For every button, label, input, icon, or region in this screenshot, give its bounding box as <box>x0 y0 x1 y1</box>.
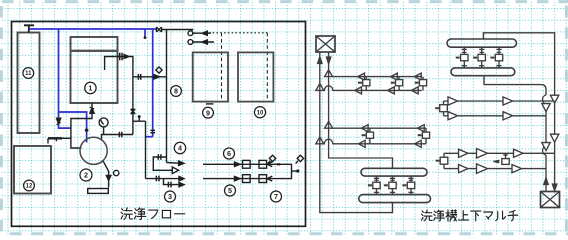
label wash-flow (洗浄フロー) <box>121 208 185 220</box>
spray valve C3 <box>490 47 502 68</box>
union bars on pump inlet <box>119 132 121 138</box>
run line R4 <box>444 168 546 170</box>
run line R1 <box>444 100 555 102</box>
tank T10 <box>238 52 273 101</box>
label circled 1 <box>85 82 96 93</box>
open nozzle triangle <box>172 167 178 174</box>
label circled 12 <box>24 180 35 191</box>
label circled 9 <box>203 107 214 118</box>
label circled 3 <box>165 191 176 202</box>
run line R3 <box>444 152 555 154</box>
wire blue drop to tank T12 side <box>59 29 71 128</box>
svg-text:7: 7 <box>274 192 278 201</box>
valve block R12 <box>435 101 447 116</box>
diamond tag B <box>296 155 304 163</box>
header pipe upper-right bottom <box>451 68 515 76</box>
down arrow on right leg <box>326 57 330 64</box>
pipe from tank T1 side outlet <box>105 57 133 135</box>
arrow node3 lower <box>179 182 184 186</box>
valve V1 on drop line <box>131 109 136 113</box>
port line upper with arrow <box>193 32 211 34</box>
vent cap on tank T11 <box>24 25 34 32</box>
svg-text:3: 3 <box>168 192 172 201</box>
arrow on line node5 <box>235 176 241 180</box>
run line R2 <box>444 115 547 117</box>
hop arc over line3 <box>543 146 546 155</box>
svg-text:9: 9 <box>206 108 210 117</box>
pump P1 <box>80 137 107 164</box>
stand mark under tank T9 <box>206 103 214 105</box>
svg-text:6: 6 <box>227 149 231 158</box>
branch node4 out <box>167 162 179 165</box>
junction triangle A top <box>325 70 333 77</box>
sampling port circles <box>188 31 193 36</box>
small gauge at discharge <box>114 170 119 175</box>
filter box A node6 <box>243 160 251 168</box>
spray header A top <box>333 76 422 78</box>
wire blue stub with dot <box>144 29 146 37</box>
label circled 10 <box>254 107 265 118</box>
label circled 2 <box>80 169 92 181</box>
flow triangles R3 <box>459 149 524 159</box>
branch mid with union <box>153 157 172 170</box>
up arrow into crossed box <box>544 178 548 185</box>
strainer S1 on header <box>156 27 161 32</box>
drop line to node3 <box>145 121 147 178</box>
header pipe bottom upper <box>361 168 427 176</box>
dotted travel line <box>205 32 267 34</box>
union ticks at tank T1 wall <box>120 53 122 60</box>
node3 branch upper <box>146 178 179 180</box>
riser line node8 <box>166 30 168 163</box>
label circled 7 <box>271 191 282 202</box>
spray header A bottom with hop <box>324 86 422 91</box>
pump discharge line <box>103 161 108 187</box>
wire supply leg right <box>329 52 393 168</box>
label circled 5 <box>225 185 236 196</box>
tank T1 <box>71 37 118 103</box>
frame wash-flow panel <box>12 22 306 227</box>
svg-text:11: 11 <box>25 71 32 77</box>
sensor lollipop on branch <box>138 118 140 121</box>
crossed box return unit bottom <box>541 192 560 208</box>
suction fitting bar <box>48 137 62 139</box>
branch to node3 drop <box>133 120 146 122</box>
header pipe bottom lower <box>359 195 431 203</box>
pump inlet line <box>102 135 134 141</box>
label circled 8 <box>171 86 182 97</box>
tick node6 <box>277 163 280 165</box>
valve arrow on drain <box>90 107 95 114</box>
dashed guide right <box>266 33 268 101</box>
svg-text:8: 8 <box>174 87 178 96</box>
spray valve D3 <box>402 176 414 195</box>
arrow on spare port <box>154 75 160 79</box>
label circled 4 <box>174 142 185 153</box>
flow triangle down <box>542 104 550 112</box>
tank T1 drain pipe <box>71 103 92 149</box>
liquid level line in tank T1 <box>71 50 118 52</box>
flow triangle down <box>542 143 550 151</box>
port line lower with arrow <box>193 41 214 43</box>
spray valve D2 <box>384 176 396 195</box>
fitting outlet line <box>62 137 71 139</box>
svg-text:2: 2 <box>84 171 88 180</box>
mid valve box R34 <box>493 153 509 164</box>
check arrow node6 <box>267 162 272 167</box>
nozzle pair A1 <box>355 73 370 94</box>
svg-text:5: 5 <box>228 186 232 195</box>
up arrow on left leg <box>318 57 322 64</box>
arrow on line node6 <box>235 162 241 166</box>
nozzle pair A3 <box>411 73 426 94</box>
label washer-up-down-multi (洗浄機上下マルチ) <box>422 210 518 221</box>
junction bead on blue pump drop <box>84 128 88 133</box>
header pipe upper-right top <box>447 39 517 47</box>
nozzle pair B1 <box>358 125 373 148</box>
svg-text:12: 12 <box>26 184 33 190</box>
page border dash top <box>2 0 568 3</box>
filter box B node6 <box>259 160 267 168</box>
filter box B node5 <box>259 175 267 183</box>
flow triangle down <box>550 134 558 142</box>
tank T9 <box>193 52 228 101</box>
nozzle pair A2 <box>388 73 403 94</box>
svg-text:10: 10 <box>257 110 264 116</box>
tank T11 <box>18 33 40 134</box>
union bars node3 upper <box>156 176 159 182</box>
spray valve C2 <box>473 47 485 68</box>
diamond tag A <box>268 155 276 163</box>
spray header B top <box>333 127 426 129</box>
dot on blue stub <box>144 36 147 39</box>
wire blue elbow to node3 line <box>146 136 153 138</box>
diamond tag node4 <box>156 67 162 73</box>
pressure gauge <box>99 118 108 127</box>
crossed box feed unit top <box>316 36 335 52</box>
header continuation to tanks <box>162 30 193 31</box>
node3 branch lower <box>164 179 179 185</box>
filter box A node5 <box>243 175 251 183</box>
wire supply leg left <box>320 52 393 213</box>
svg-text:1: 1 <box>88 84 92 93</box>
flow triangles R4 <box>459 164 522 174</box>
valve arrow on blue drop <box>56 118 61 125</box>
wire connector to frame <box>483 33 554 190</box>
drain stub with cap <box>292 170 298 172</box>
page border dash bottom <box>10 232 568 235</box>
wire blue drop to strainer <box>152 29 154 137</box>
spray valve D1 <box>368 176 380 195</box>
fitting hook <box>47 138 49 143</box>
union bars on strainer drop <box>150 130 155 132</box>
wire blue supply header <box>29 28 156 30</box>
arrow node3 upper <box>179 176 184 180</box>
junction triangle B top <box>325 121 333 128</box>
svg-text:4: 4 <box>178 144 182 153</box>
flow triangle down <box>550 95 558 103</box>
flow triangles R1 <box>448 97 513 105</box>
check arrow node5 <box>267 176 272 181</box>
valve block R34 <box>436 153 448 168</box>
junction triangle B bottom <box>316 137 324 144</box>
tank T12 <box>14 146 51 194</box>
page border dash left <box>0 6 3 236</box>
page border dash right <box>565 6 568 236</box>
fitting tick <box>55 139 57 142</box>
union bars node3 lower <box>168 182 171 188</box>
arrow on discharge <box>106 175 111 180</box>
union bars on spare port <box>138 74 140 80</box>
spray valve C1 <box>456 47 468 68</box>
wire return drop right <box>484 76 546 192</box>
label circled 6 <box>224 148 235 159</box>
junction triangle A bottom <box>316 84 324 91</box>
dashed guide left <box>221 33 223 101</box>
nozzle pair B2 <box>414 125 429 148</box>
line node6 <box>203 164 292 178</box>
hop arc over line1 <box>543 95 546 104</box>
spray header B bottom with hop <box>324 139 426 144</box>
flow arrow after union <box>124 55 129 59</box>
flow triangles R2 <box>448 112 513 120</box>
label circled 11 <box>23 68 34 79</box>
down arrow into crossed box <box>552 184 556 191</box>
spare port line <box>133 76 167 78</box>
wire blue drop to pump <box>59 112 87 143</box>
drip tray <box>88 189 109 194</box>
